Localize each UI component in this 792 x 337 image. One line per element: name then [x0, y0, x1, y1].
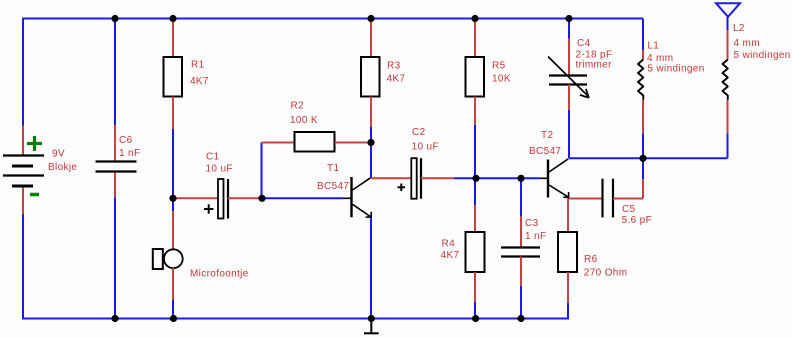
capacitor C1 right plate — [227, 179, 229, 219]
svg-text:Blokje: Blokje — [48, 162, 77, 173]
resistor R6 — [558, 232, 577, 272]
transistor T2 base lead — [540, 177, 548, 179]
junction R1-C1 node — [169, 195, 176, 202]
wire left column blue (battery - to bottom rail) — [22, 215, 24, 320]
wire T2 emitter / R6 top lead — [567, 199, 569, 233]
svg-text:1 nF: 1 nF — [119, 148, 140, 159]
wire R4 bottom lead — [474, 272, 476, 302]
svg-text:1 nF: 1 nF — [525, 231, 546, 242]
trimmer C4 arrowhead — [580, 89, 589, 98]
svg-text:R3: R3 — [387, 61, 401, 72]
wire C5 riser red — [642, 179, 644, 199]
capacitor C1 left plate — [218, 179, 224, 219]
transistor T1 bar — [350, 177, 352, 217]
transistor T2 collector stroke — [549, 159, 568, 172]
wire C1 node to T1 base blue — [262, 197, 343, 199]
wire C1 right lead — [228, 197, 262, 199]
junction C6 bottom — [111, 315, 118, 322]
junction C6 top — [111, 15, 118, 22]
svg-text:BC547: BC547 — [529, 146, 561, 157]
svg-text:C6: C6 — [119, 135, 133, 146]
wire R4 to bottom rail blue — [474, 302, 476, 319]
wire L1 to tank row blue — [642, 133, 644, 158]
svg-text:trimmer: trimmer — [576, 60, 613, 71]
inductor L1 coil — [638, 60, 643, 100]
svg-text:100 K: 100 K — [290, 115, 318, 126]
resistor R4 — [466, 232, 485, 272]
wire C5 right lead — [613, 198, 643, 200]
svg-text:R1: R1 — [191, 60, 205, 71]
junction L1 tank node — [639, 155, 646, 162]
battery plus symbol — [27, 136, 42, 151]
wire C3 riser blue — [520, 178, 522, 216]
inductor L2 coil — [723, 60, 728, 100]
svg-text:10 uF: 10 uF — [412, 142, 439, 153]
svg-text:R5: R5 — [492, 61, 506, 72]
transistor T2 emitter stroke with arrow — [549, 185, 569, 198]
wire C1 left lead — [173, 197, 218, 199]
svg-text:T2: T2 — [541, 130, 553, 141]
resistor R5 — [466, 57, 485, 97]
wire left column blue (top rail to battery +) — [22, 18, 24, 126]
transistor T2 bar — [547, 160, 549, 198]
svg-text:T1: T1 — [327, 163, 339, 174]
wire microphone bottom lead — [172, 268, 174, 300]
capacitor C2 right plate — [420, 158, 422, 199]
wire T1 emitter down blue — [370, 218, 372, 319]
wire mic to bottom rail blue — [172, 300, 174, 319]
wire R6 to bottom rail blue — [567, 303, 569, 320]
svg-text:4K7: 4K7 — [441, 250, 460, 261]
wire R3 to collector node blue — [370, 127, 372, 178]
wire C2 right lead — [421, 177, 454, 179]
junction C3 node — [517, 175, 524, 182]
wire C2 node to T2 base blue — [454, 177, 540, 179]
resistor R2 — [295, 132, 335, 152]
resistor R1 — [164, 57, 183, 97]
junction R1 top — [169, 15, 176, 22]
svg-text:L2: L2 — [733, 23, 745, 34]
capacitor C5 plates — [603, 179, 614, 218]
wire R5 top lead — [474, 19, 476, 58]
svg-text:270 Ohm: 270 Ohm — [584, 268, 628, 279]
junction R2-R3 node — [367, 139, 374, 146]
wire C3 bottom lead — [520, 257, 522, 287]
svg-text:Microfoontje: Microfoontje — [190, 269, 249, 280]
wire C6 bottom lead — [114, 171, 116, 198]
wire bottom ground rail — [23, 318, 568, 320]
wire R2 riser blue — [261, 143, 263, 199]
svg-text:C4: C4 — [577, 38, 591, 49]
wire R3 bottom lead — [370, 97, 372, 128]
wire L1 bottom lead — [642, 100, 644, 134]
transistor T1 emitter stroke with arrow — [353, 204, 372, 218]
wire R5 bottom lead — [474, 97, 476, 126]
battery B1 9V — [3, 156, 44, 187]
microphone MIC1 body rect — [153, 249, 163, 269]
svg-text:L1: L1 — [647, 40, 659, 51]
junction C1-R2 node — [258, 195, 265, 202]
wire C5 riser blue to tank row — [642, 158, 644, 179]
wire L1 top blue — [642, 19, 644, 51]
wire C5 left lead — [569, 198, 602, 200]
wire microphone top lead — [172, 211, 174, 250]
svg-text:C1: C1 — [206, 152, 220, 163]
svg-text:C3: C3 — [525, 218, 539, 229]
wire R5 to base node and down blue — [474, 125, 476, 205]
svg-text:4 mm: 4 mm — [734, 38, 760, 49]
wire C4 top lead — [568, 39, 570, 76]
junction mic bottom — [170, 315, 177, 322]
wire top supply rail — [23, 18, 643, 20]
svg-text:R4: R4 — [442, 239, 456, 250]
wire C4 top blue — [568, 19, 570, 39]
svg-text:5 windingen: 5 windingen — [647, 63, 704, 74]
wire R2 right lead — [335, 142, 372, 144]
wire R1 top lead — [172, 19, 174, 58]
wire L2 bottom lead — [727, 100, 729, 134]
trimmer capacitor C4 plates — [549, 76, 587, 85]
junction C4 top — [565, 15, 572, 22]
wire C3 to bottom rail blue — [520, 286, 522, 319]
wire C3 top lead — [520, 216, 522, 247]
capacitor C6 — [96, 162, 137, 172]
wire R3 top lead — [370, 19, 372, 58]
svg-text:R2: R2 — [291, 101, 305, 112]
svg-text:5 windingen: 5 windingen — [734, 50, 791, 61]
wire L2 to tank row blue — [727, 133, 729, 158]
C1 polarity plus — [204, 204, 214, 213]
C2 polarity plus — [398, 184, 406, 192]
wire C2 left lead — [371, 177, 411, 179]
svg-text:R6: R6 — [584, 254, 598, 265]
junction R5 top — [471, 15, 478, 22]
junction C3 bottom — [517, 315, 524, 322]
wire R4 top lead — [474, 205, 476, 232]
transistor T1 base lead — [343, 197, 352, 199]
wire antenna stem blue — [727, 17, 729, 30]
antenna symbol — [716, 3, 740, 17]
wire tank row blue — [569, 157, 728, 159]
wire C4 bottom lead — [568, 85, 570, 111]
battery minus symbol — [30, 193, 39, 197]
svg-text:4K7: 4K7 — [190, 76, 209, 87]
svg-text:9V: 9V — [52, 149, 65, 160]
capacitor C3 — [501, 248, 540, 257]
wire R1 to mic node blue — [172, 129, 174, 211]
wire R2 left lead — [262, 142, 295, 144]
transistor T1 collector stroke — [353, 178, 371, 190]
wire L1 top lead — [642, 50, 644, 60]
svg-text:C2: C2 — [412, 127, 426, 138]
wire battery - lead — [22, 186, 24, 215]
wire C6 column bottom blue — [114, 198, 116, 319]
svg-text:4K7: 4K7 — [387, 74, 406, 85]
junction ground node — [368, 315, 375, 322]
wire R6 bottom lead — [567, 272, 569, 303]
junction R4 bottom — [472, 315, 479, 322]
wire L2 top lead — [727, 30, 729, 60]
junction R3 top — [367, 15, 374, 22]
svg-text:10K: 10K — [492, 74, 511, 85]
wire C6 column top blue — [114, 19, 116, 126]
svg-text:10 uF: 10 uF — [206, 164, 233, 175]
resistor R3 — [361, 57, 380, 97]
svg-text:BC547: BC547 — [317, 181, 349, 192]
svg-text:C5: C5 — [622, 204, 636, 215]
svg-text:5.6 pF: 5.6 pF — [622, 215, 652, 226]
junction R5-C2 node — [472, 175, 479, 182]
ground symbol — [364, 321, 379, 333]
wire C4 to tank row blue — [568, 110, 570, 158]
wire battery + lead — [22, 126, 24, 156]
capacitor C2 left plate — [411, 158, 416, 199]
wire R1 bottom lead — [172, 97, 174, 130]
trimmer C4 arrow — [548, 57, 589, 98]
wire C6 top lead — [114, 125, 116, 161]
microphone MIC1 circle — [164, 249, 183, 268]
